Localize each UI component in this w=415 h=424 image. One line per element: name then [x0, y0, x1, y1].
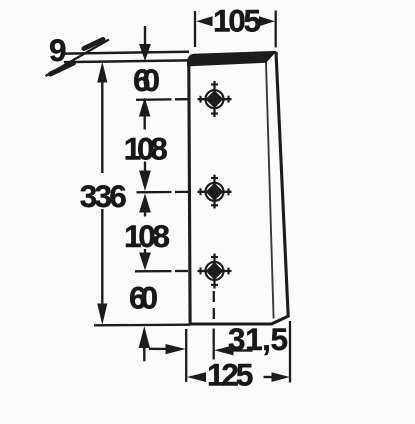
- top edge extension line (upper, back edge): [64, 52, 189, 54]
- dimension 31,5 / 125 extension line left: [185, 329, 187, 382]
- plate inner right edge: [266, 63, 274, 319]
- bottom edge extension line (to the left of plate): [94, 324, 190, 327]
- svg-text:336: 336: [80, 178, 127, 214]
- dimension 125 left arrow (points left): [187, 372, 206, 382]
- chain arrow at hole 3 (points down): [144, 249, 146, 255]
- square hole H3: [198, 254, 232, 289]
- hole H2 centerline dashes (left): [137, 191, 172, 194]
- svg-text:108: 108: [124, 131, 168, 167]
- hole H1 centerline dashes (left): [136, 98, 172, 101]
- svg-text:31,5: 31,5: [228, 321, 288, 357]
- svg-text:60: 60: [133, 62, 160, 98]
- dimension 31,5 / 125 extension line right: [289, 321, 291, 383]
- thickness slash tick (upper): [84, 40, 103, 49]
- svg-text:60: 60: [129, 280, 158, 316]
- dimension 336 line upper segment: [101, 78, 103, 173]
- svg-text:9: 9: [49, 32, 67, 68]
- thickness slash tick (lower): [51, 63, 74, 74]
- hole H3 vertical centerline dashes (down): [213, 291, 215, 302]
- dimension 31,5 left outside arrow (points right): [149, 348, 166, 351]
- plate outline (left edge, bottom edge, bevel, outer right edge): [189, 52, 288, 324]
- dimension 31,5 extension line at hole centerline: [213, 329, 215, 360]
- dimension 31,5 right outside arrow (points left): [214, 345, 233, 355]
- dimension 105 extension line right: [275, 11, 277, 48]
- chain arrow at hole 1 (points up): [139, 97, 151, 116]
- dimension 336 line lower segment: [101, 209, 103, 308]
- square hole H1: [198, 81, 232, 117]
- dimension 105 extension line left: [194, 11, 196, 47]
- thickness leader line: [46, 40, 110, 77]
- chain bowtie arrows at hole 2: [144, 162, 146, 173]
- svg-text:105: 105: [213, 3, 261, 39]
- dimension 105 right arrow: [259, 16, 275, 26]
- square hole H2: [198, 175, 232, 209]
- dimension 105 left arrow: [196, 16, 213, 26]
- svg-text:108: 108: [124, 218, 170, 254]
- hole H3 centerline dashes (left): [135, 270, 172, 272]
- dimension 125 right arrow (points right): [264, 376, 273, 378]
- plate top face (9 mm edge, filled): [187, 51, 275, 66]
- top edge extension line (lower, front edge): [64, 60, 189, 62]
- chain arrow at bottom edge (points up): [139, 326, 150, 348]
- dimension 336 top arrow: [97, 62, 107, 83]
- chain arrow at top edge (points down to plate top): [144, 26, 146, 47]
- dimension 336 bottom arrow: [97, 304, 107, 325]
- svg-text:125: 125: [207, 357, 254, 393]
